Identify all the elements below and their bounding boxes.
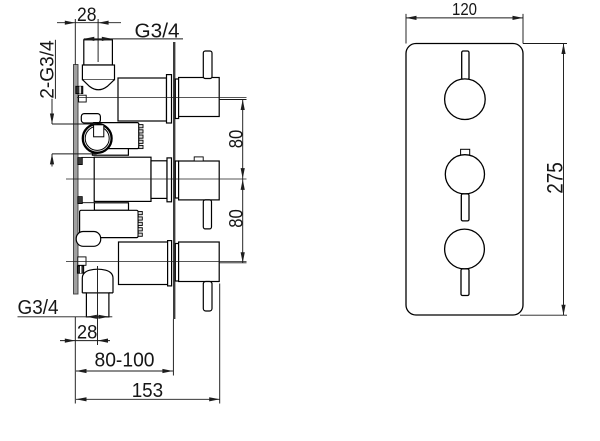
knob3 circle	[445, 229, 485, 269]
arrow 153 left	[76, 397, 87, 401]
dim 153 line	[76, 398, 220, 400]
arrow 80 top up	[241, 100, 245, 111]
arrow 2-G3/4 up	[50, 154, 54, 165]
arrow 80-100 right	[162, 369, 173, 373]
port slot	[94, 125, 104, 137]
middle handle stem	[203, 200, 211, 229]
svg-text:G3/4: G3/4	[18, 297, 59, 319]
svg-text:80-100: 80-100	[95, 350, 155, 372]
middle body top stub	[81, 156, 94, 158]
arrow 80-100 left	[76, 369, 87, 373]
dim 2-G3/4 leader upper	[51, 99, 53, 124]
side port circle outer	[83, 124, 112, 153]
arrow pipe bottom right	[98, 315, 109, 319]
svg-text:2-G3/4: 2-G3/4	[37, 40, 59, 99]
arrow pipe top left	[84, 37, 95, 41]
upper cartridge	[92, 123, 138, 149]
wall line	[173, 42, 175, 319]
upper cartridge collar	[92, 149, 128, 156]
knob2 stem	[461, 194, 469, 221]
dim 80 bottom extension	[219, 262, 246, 264]
middle handle	[179, 161, 220, 200]
dim 275 bottom extension	[520, 314, 567, 316]
top inlet pipe	[84, 40, 113, 65]
side port circle inner	[85, 126, 109, 150]
middle collar top stub	[81, 202, 94, 204]
svg-text:153: 153	[132, 380, 164, 402]
dim 275 top extension	[523, 43, 567, 45]
arrow 153 right	[209, 397, 220, 401]
dim 28 bottom line	[60, 340, 110, 342]
knob2 nub	[461, 149, 470, 155]
underline 2-G3/4	[54, 40, 56, 99]
dim 120 left extension	[405, 14, 407, 44]
svg-text:28: 28	[77, 5, 97, 26]
svg-text:80: 80	[225, 209, 247, 228]
knob1 stem	[462, 51, 469, 80]
arrow 28 bottom right	[98, 339, 109, 343]
mounting plate	[74, 65, 79, 295]
outlet pipe	[86, 293, 109, 317]
arrow 2-G3/4 down	[50, 114, 54, 125]
lower cartridge	[80, 210, 139, 237]
top handle	[179, 78, 220, 117]
dim 2-G3/4 leader lower	[51, 154, 53, 167]
lower spline teeth	[138, 212, 142, 237]
middle handle nub	[194, 157, 203, 161]
bottom handle stem	[203, 282, 212, 312]
port tangent line upper	[52, 123, 97, 125]
top handle stem	[203, 51, 212, 79]
axis line bottom row	[66, 261, 247, 263]
port tangent line lower	[52, 153, 97, 155]
arrow 120 right	[513, 16, 524, 20]
dim 120 right extension	[522, 14, 524, 44]
middle neck	[151, 161, 167, 199]
bottom handle	[179, 242, 220, 282]
bottom rear flange	[175, 244, 178, 282]
top inlet nut	[82, 65, 114, 80]
upper spline teeth	[139, 125, 143, 149]
dim 80 top extension	[219, 99, 246, 101]
arrow 28 top right	[98, 21, 109, 25]
bottom pipe centerline	[97, 266, 99, 345]
middle valve body	[94, 157, 151, 201]
dim 153 right extension	[219, 284, 221, 404]
screw on plate upper	[76, 86, 83, 93]
arrow 80 bottom down	[241, 252, 245, 263]
arrow 80 mid up	[241, 179, 245, 190]
top inlet funnel	[82, 80, 114, 90]
bottom escutcheon flange	[168, 241, 172, 286]
dim 80 stack line	[242, 100, 244, 263]
dim 80-100 right extension	[172, 319, 174, 376]
plate screw bottom	[77, 266, 83, 273]
bottom cylinder	[119, 242, 168, 285]
knob3 stem	[461, 269, 469, 296]
plate clip upper middle	[78, 158, 83, 165]
block on plate upper	[79, 95, 87, 102]
arrow 120 left	[406, 16, 417, 20]
dim 28 top extension lines	[74, 19, 76, 65]
arrow 275 bottom	[561, 305, 565, 316]
dim G3/4 bottom leader	[18, 316, 113, 318]
arrow 275 top	[561, 44, 565, 55]
arrow 28 bottom left	[65, 339, 76, 343]
arrow 80 mid down	[241, 168, 245, 179]
lower cartridge collar	[94, 203, 128, 211]
plate block bottom	[78, 257, 86, 265]
dim 120 line	[406, 17, 523, 19]
body cap	[81, 114, 100, 123]
arrow pipe bottom left	[86, 315, 97, 319]
dim 28 top line	[57, 22, 121, 24]
dim 275 line	[563, 44, 565, 316]
top sleeve cylinder	[118, 78, 167, 121]
arrow pipe top right	[102, 37, 113, 41]
bottom shared left extension	[74, 317, 76, 404]
svg-text:80: 80	[225, 130, 247, 149]
svg-text:28: 28	[77, 322, 98, 344]
outlet dome pill	[76, 232, 101, 247]
svg-text:120: 120	[452, 0, 477, 19]
middle rear flange	[175, 161, 178, 198]
top rear flange	[175, 79, 178, 119]
front plate	[406, 44, 523, 316]
axis line middle row	[66, 178, 247, 180]
arrow 28 top left	[65, 21, 76, 25]
svg-text:G3/4: G3/4	[135, 20, 180, 42]
knob2 circle	[445, 155, 484, 194]
outlet elbow	[82, 269, 113, 293]
top escutcheon flange	[167, 75, 172, 123]
middle escutcheon flange	[167, 158, 172, 202]
dim G3/4 top leader	[84, 38, 183, 40]
dim 80-100 line	[76, 370, 173, 372]
plate clip lower middle	[78, 197, 83, 204]
axis line top row	[77, 97, 247, 99]
svg-text:275: 275	[542, 162, 567, 194]
knob1 circle	[445, 79, 486, 120]
